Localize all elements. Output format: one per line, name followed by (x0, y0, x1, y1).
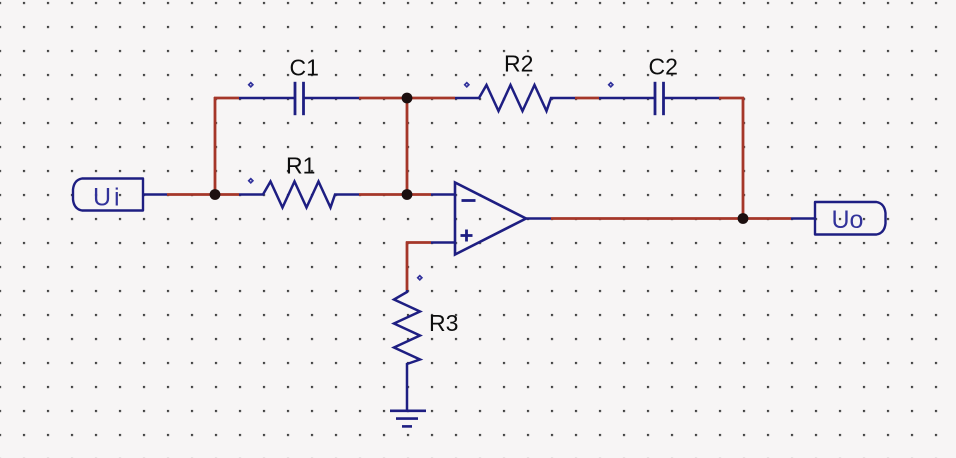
wire node B to node C (406, 98, 409, 195)
wire node C to minus input (407, 193, 431, 196)
junction node D (738, 213, 749, 224)
wire R2 to C2 (575, 97, 599, 100)
wire to C1 left pin (214, 97, 239, 100)
wire node A up (214, 97, 217, 196)
wire corner down to node D (742, 97, 745, 220)
svg-text:R2: R2 (504, 51, 533, 77)
resistor R1 (239, 182, 359, 208)
junction node C (402, 189, 413, 200)
marker R1 (248, 178, 255, 185)
wire node A to R1 (215, 193, 239, 196)
wire plus input down to R3 (406, 242, 409, 291)
svg-text:Ui: Ui (93, 184, 123, 212)
wire plus input (406, 241, 431, 244)
resistor R2 (455, 85, 575, 111)
resistor R3 (394, 290, 420, 411)
wire C2 to corner (719, 97, 744, 100)
marker C2 (608, 82, 615, 89)
marker R2 (464, 82, 471, 89)
wire R1 to node C (359, 193, 408, 196)
marker R3 (417, 275, 424, 282)
wire Ui to node A (167, 193, 216, 196)
port Uo (791, 202, 886, 235)
port Ui (73, 179, 167, 211)
svg-text:R3: R3 (429, 310, 458, 336)
capacitor C1 (239, 82, 359, 115)
wire C1 to node B (359, 97, 408, 100)
junction node A (210, 189, 221, 200)
junction node B (402, 93, 413, 104)
wire op-amp output to node D (551, 217, 743, 220)
marker C1 (248, 82, 255, 89)
op-amp U1 (431, 183, 551, 255)
svg-text:C1: C1 (290, 55, 319, 81)
svg-text:Uo: Uo (832, 206, 864, 234)
wire node B to R2 (407, 97, 455, 100)
capacitor C2 (599, 82, 719, 115)
svg-text:C2: C2 (649, 54, 678, 80)
ground (390, 411, 426, 427)
svg-text:R1: R1 (286, 153, 315, 179)
wire node D to Uo (743, 217, 791, 220)
